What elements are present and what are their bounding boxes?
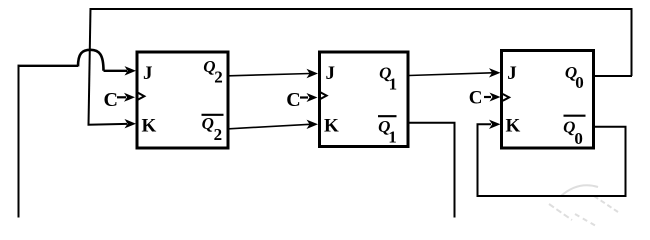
clock chevron FF3 [503, 94, 509, 101]
svg-text:K: K [324, 115, 339, 136]
wire hop over vertical [78, 50, 104, 71]
wire: into K of FF1 [88, 123, 128, 126]
wire: Q1 to J of FF3 [409, 73, 492, 76]
svg-text:C: C [286, 89, 300, 111]
svg-text:2: 2 [214, 68, 223, 87]
arrowhead K FF2 [307, 120, 319, 129]
label Q0bar output FF3 [564, 115, 586, 117]
wire: external input horizontal to hop [18, 65, 79, 67]
wire: Q2bar to K of FF2 [229, 124, 310, 129]
wire: external input vertical (dead end) [18, 65, 20, 218]
wire: right vertical of top feedback [631, 8, 633, 76]
wire: Q2 to J of FF2 [229, 74, 310, 76]
svg-text:J: J [143, 63, 153, 84]
wire: hop to J of FF1 [104, 70, 128, 72]
wire: Q0bar feedback loop to K of FF3 [478, 124, 626, 196]
label Q1bar output FF2 [378, 115, 397, 117]
svg-text:J: J [326, 63, 336, 84]
flip-flop FF2 box (Q1) [320, 52, 409, 147]
wire: Q0 output to top feedback [594, 75, 632, 77]
label Q2bar output FF1 [202, 114, 224, 116]
clock arrow C FF2 [300, 96, 308, 98]
wire: left vertical of top feedback [89, 8, 91, 125]
svg-text:1: 1 [388, 128, 397, 147]
svg-text:C: C [469, 88, 483, 109]
clock arrow C FF1 [117, 96, 126, 98]
arrowhead K FF1 [125, 119, 137, 128]
svg-text:0: 0 [574, 129, 583, 148]
arrowhead J FF3 [489, 68, 501, 77]
svg-text:K: K [142, 115, 157, 136]
svg-text:Q: Q [202, 114, 214, 133]
flip-flop FF1 box (Q2) [137, 52, 228, 148]
svg-text:K: K [506, 115, 521, 136]
wire: top feedback horizontal [90, 8, 632, 10]
clock chevron FF2 [320, 92, 326, 99]
arrowhead J FF2 [307, 69, 319, 78]
clock arrow C FF3 [484, 96, 491, 98]
arrowhead J FF1 [125, 66, 137, 75]
svg-text:J: J [507, 63, 517, 84]
svg-text:2: 2 [214, 125, 223, 144]
clock chevron FF1 [138, 93, 144, 100]
flip-flop FF3 box (Q0) [502, 51, 594, 149]
arrowhead K FF3 [489, 120, 501, 129]
watermark faint strokes [549, 185, 618, 226]
wire: Q1bar output dead-end [409, 123, 455, 218]
svg-text:0: 0 [575, 73, 584, 92]
svg-text:1: 1 [389, 74, 398, 93]
svg-text:C: C [104, 89, 118, 111]
